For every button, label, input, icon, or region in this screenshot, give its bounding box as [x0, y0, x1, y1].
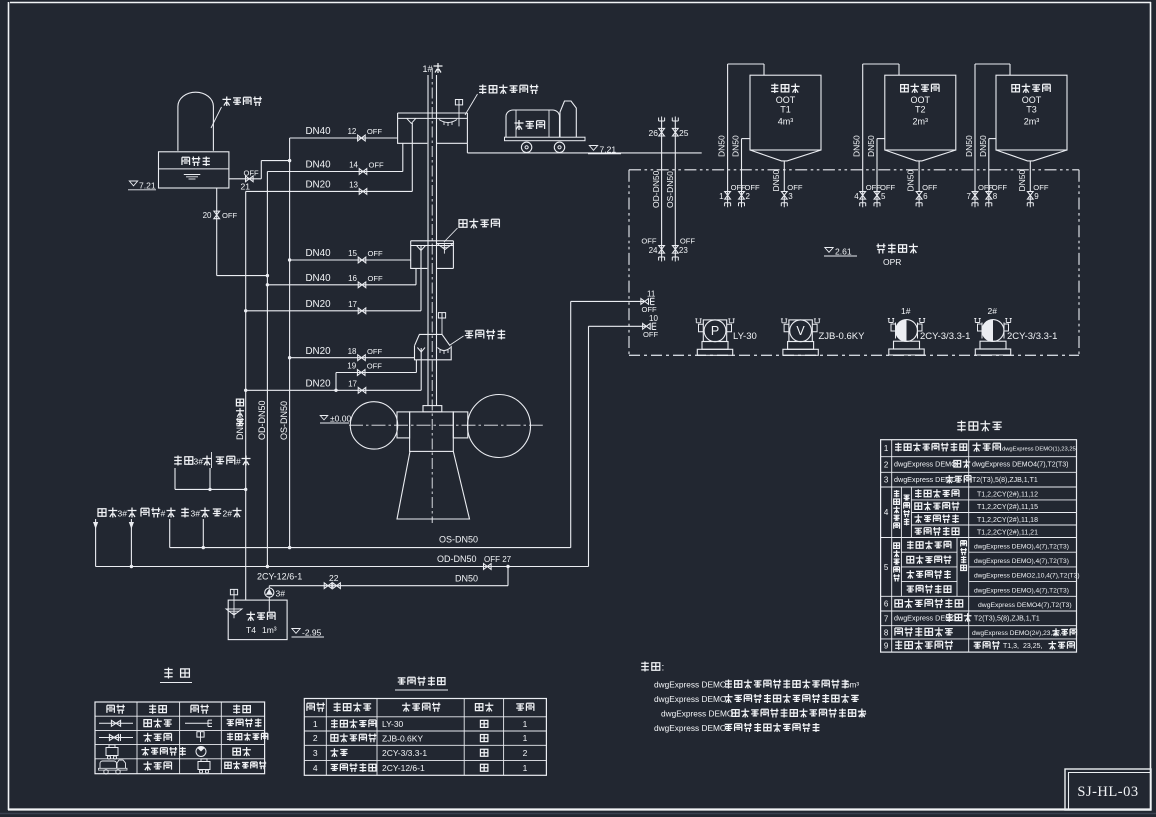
- svg-text:2.61: 2.61: [835, 247, 852, 257]
- svg-text:dwgExpress DEMO),4(7),T2(T3): dwgExpress DEMO),4(7),T2(T3): [974, 543, 1069, 550]
- svg-text:11: 11: [647, 289, 656, 298]
- svg-text:OS-DN50: OS-DN50: [439, 535, 478, 545]
- svg-text:dwgExpress DEMO4(7),T2(T3): dwgExpress DEMO4(7),T2(T3): [978, 602, 1072, 609]
- svg-text:dwgExpress DEMO(2#),23,25,: dwgExpress DEMO(2#),23,25,: [972, 630, 1062, 637]
- svg-text:2: 2: [746, 192, 751, 201]
- svg-text:3#: 3#: [276, 589, 286, 599]
- svg-text:DN20: DN20: [305, 346, 331, 357]
- svg-text:T4: T4: [246, 625, 256, 635]
- svg-text:OFF: OFF: [367, 362, 383, 371]
- svg-text:7.21: 7.21: [600, 145, 617, 155]
- svg-text:6: 6: [884, 600, 889, 609]
- svg-text:OOT: OOT: [776, 95, 796, 105]
- svg-text:3#: 3#: [191, 509, 201, 519]
- svg-text:dwgExpress DEMO: dwgExpress DEMO: [654, 694, 727, 704]
- svg-text:OS-DN50: OS-DN50: [665, 171, 675, 208]
- svg-text:23,25,: 23,25,: [1023, 643, 1043, 650]
- svg-text:±0.00: ±0.00: [330, 414, 351, 424]
- svg-text:dwgExpress DEMO: dwgExpress DEMO: [661, 709, 734, 719]
- svg-text:26: 26: [649, 128, 659, 138]
- svg-text:OFF: OFF: [222, 211, 238, 220]
- svg-text:.5m³: .5m³: [843, 681, 859, 690]
- svg-text:OFF: OFF: [369, 161, 385, 170]
- svg-text:T1,2,2CY(2#),11,12: T1,2,2CY(2#),11,12: [977, 492, 1038, 499]
- svg-text:DN50: DN50: [717, 135, 727, 157]
- svg-text:OFF: OFF: [643, 330, 659, 339]
- svg-text:LY-30: LY-30: [733, 331, 757, 342]
- svg-text:OFF: OFF: [367, 127, 383, 136]
- svg-text:1: 1: [719, 192, 724, 201]
- svg-text:8: 8: [993, 192, 998, 201]
- svg-text:20: 20: [203, 211, 212, 220]
- svg-text:OFF: OFF: [368, 249, 384, 258]
- svg-text:4: 4: [313, 763, 318, 773]
- svg-text:DN50: DN50: [978, 135, 988, 157]
- svg-text:OFF: OFF: [680, 237, 696, 246]
- svg-text:DN40: DN40: [305, 160, 331, 171]
- svg-text:T1,2,2CY(2#),11,18: T1,2,2CY(2#),11,18: [977, 517, 1038, 524]
- svg-text::: :: [662, 663, 665, 674]
- svg-text:7: 7: [967, 192, 972, 201]
- svg-text:3#: 3#: [194, 457, 204, 467]
- svg-text:2m³: 2m³: [913, 117, 929, 127]
- svg-text:DN50: DN50: [455, 574, 478, 584]
- svg-text:2CY-3/3.3-1: 2CY-3/3.3-1: [382, 748, 427, 758]
- svg-text:3#: 3#: [118, 509, 128, 519]
- svg-text:OFF: OFF: [1033, 183, 1049, 192]
- svg-text:#: #: [161, 509, 166, 519]
- svg-text:DN20: DN20: [305, 379, 331, 390]
- svg-text:OFF: OFF: [244, 168, 260, 177]
- svg-text:DN50: DN50: [731, 135, 741, 157]
- svg-text:dwgExpress DEMO),4(7),T2(T3): dwgExpress DEMO),4(7),T2(T3): [974, 558, 1069, 565]
- svg-text:1: 1: [884, 444, 889, 453]
- svg-text:DN40: DN40: [305, 273, 331, 284]
- svg-text:OFF: OFF: [368, 274, 384, 283]
- svg-text:T2: T2: [915, 105, 926, 115]
- svg-text:T1,2,2CY(2#),11,21: T1,2,2CY(2#),11,21: [977, 529, 1038, 536]
- svg-text:5: 5: [884, 563, 889, 572]
- svg-text:OD-DN50: OD-DN50: [437, 554, 477, 564]
- svg-text:14: 14: [349, 161, 358, 170]
- svg-text:ZJB-0.6KY: ZJB-0.6KY: [382, 733, 423, 743]
- svg-text:12: 12: [347, 127, 356, 136]
- svg-text:2CY-3/3.3-1: 2CY-3/3.3-1: [1007, 331, 1057, 342]
- svg-text:dwgExpress DEMO: dwgExpress DEMO: [654, 680, 727, 690]
- svg-text:OFF: OFF: [641, 237, 657, 246]
- svg-text:2CY-12/6-1: 2CY-12/6-1: [382, 763, 425, 773]
- svg-text:7: 7: [884, 614, 889, 623]
- svg-text:1#: 1#: [423, 64, 433, 74]
- svg-text:1: 1: [523, 719, 528, 729]
- svg-text:T2(T3),5(8),ZJB,1,T1: T2(T3),5(8),ZJB,1,T1: [972, 477, 1038, 484]
- svg-text:19: 19: [347, 362, 356, 371]
- svg-text:dwgExpress DEMO: dwgExpress DEMO: [894, 460, 957, 469]
- svg-text:DN50: DN50: [866, 135, 876, 157]
- svg-text:DN50: DN50: [906, 169, 916, 191]
- svg-text:V: V: [796, 324, 805, 338]
- svg-text:3: 3: [313, 748, 318, 758]
- svg-text:22: 22: [329, 573, 339, 583]
- svg-text:7.21: 7.21: [139, 180, 156, 190]
- svg-text:2#: 2#: [988, 306, 998, 316]
- svg-text:4: 4: [884, 508, 889, 517]
- svg-text:OOT: OOT: [911, 95, 931, 105]
- svg-text:2#: 2#: [858, 710, 867, 719]
- svg-text:15: 15: [348, 249, 357, 258]
- svg-text:dwgExpress DEMO(1),23,25: dwgExpress DEMO(1),23,25: [1002, 447, 1076, 453]
- svg-text:1#: 1#: [901, 306, 911, 316]
- svg-text:OPR: OPR: [883, 257, 901, 267]
- svg-text:ZJB-0.6KY: ZJB-0.6KY: [819, 331, 866, 342]
- svg-text:2: 2: [523, 748, 528, 758]
- svg-text:OFF: OFF: [922, 183, 938, 192]
- svg-text:LY-30: LY-30: [382, 719, 404, 729]
- svg-text:3: 3: [884, 476, 889, 485]
- svg-text:16: 16: [348, 274, 357, 283]
- svg-text:SJ-HL-03: SJ-HL-03: [1077, 784, 1138, 800]
- svg-text:2CY-12/6-1: 2CY-12/6-1: [257, 572, 302, 582]
- svg-text:1: 1: [313, 719, 318, 729]
- svg-text:2m³: 2m³: [1024, 117, 1040, 127]
- svg-text:2#: 2#: [223, 509, 233, 519]
- svg-text:OFF: OFF: [866, 183, 882, 192]
- svg-text:1m³: 1m³: [262, 625, 277, 635]
- svg-text:4: 4: [854, 192, 859, 201]
- svg-text:17: 17: [348, 300, 357, 309]
- svg-text:3: 3: [788, 192, 793, 201]
- svg-text:DN50: DN50: [1017, 169, 1027, 191]
- svg-text:T1,2,2CY(2#),11,15: T1,2,2CY(2#),11,15: [977, 504, 1038, 511]
- svg-text:OFF 27: OFF 27: [484, 555, 512, 564]
- svg-text:13: 13: [349, 181, 358, 190]
- svg-text:OFF: OFF: [367, 347, 383, 356]
- svg-text:25: 25: [679, 128, 689, 138]
- svg-text:OFF: OFF: [642, 305, 658, 314]
- svg-text:8: 8: [884, 628, 889, 637]
- svg-text:6: 6: [923, 192, 928, 201]
- svg-text:T2(T3),5(8),ZJB,1,T1: T2(T3),5(8),ZJB,1,T1: [974, 616, 1040, 623]
- svg-text:OFF: OFF: [992, 183, 1008, 192]
- svg-text:1: 1: [523, 733, 528, 743]
- svg-text:DN40: DN40: [305, 126, 331, 137]
- svg-text:23: 23: [679, 246, 688, 255]
- svg-text:T3: T3: [1026, 105, 1037, 115]
- svg-text:OFF: OFF: [787, 183, 803, 192]
- svg-text:DN50: DN50: [852, 135, 862, 157]
- svg-text:T1,3,: T1,3,: [1003, 643, 1019, 650]
- svg-text:9: 9: [884, 642, 889, 651]
- svg-text:dwgExpress DEMO: dwgExpress DEMO: [654, 723, 727, 733]
- svg-text:OD-DN50: OD-DN50: [257, 400, 267, 440]
- svg-text:4m³: 4m³: [778, 117, 794, 127]
- svg-text:#: #: [236, 457, 241, 467]
- svg-text:18: 18: [348, 347, 357, 356]
- svg-text:DN20: DN20: [305, 299, 331, 310]
- svg-text:OOT: OOT: [1022, 95, 1042, 105]
- svg-text:2: 2: [884, 461, 889, 470]
- svg-text:OD-DN50: OD-DN50: [651, 170, 661, 208]
- svg-text:DN40: DN40: [305, 248, 331, 259]
- svg-text:P: P: [711, 324, 719, 338]
- svg-text:OFF: OFF: [880, 183, 896, 192]
- svg-text:10: 10: [649, 314, 658, 323]
- svg-text:OFF: OFF: [745, 183, 761, 192]
- svg-text:dwgExpress DEMO),4(7),T2(T3): dwgExpress DEMO),4(7),T2(T3): [974, 587, 1069, 594]
- svg-text:1: 1: [523, 763, 528, 773]
- svg-text:dwgExpress DEMO2,10,4(7),T2(T3: dwgExpress DEMO2,10,4(7),T2(T3): [974, 573, 1080, 580]
- svg-text:24: 24: [649, 246, 658, 255]
- svg-text:2CY-3/3.3-1: 2CY-3/3.3-1: [920, 331, 970, 342]
- svg-text:-2.95: -2.95: [302, 628, 322, 638]
- svg-text:DN50: DN50: [964, 135, 974, 157]
- svg-text:DN20: DN20: [305, 180, 331, 191]
- svg-text:21: 21: [241, 182, 251, 192]
- svg-text:dwgExpress DEMO4(7),T2(T3): dwgExpress DEMO4(7),T2(T3): [972, 462, 1068, 469]
- svg-text:5: 5: [881, 192, 886, 201]
- svg-text:2: 2: [313, 733, 318, 743]
- svg-text:OS-DN50: OS-DN50: [279, 401, 289, 440]
- svg-text:17: 17: [348, 380, 357, 389]
- svg-text:DN50: DN50: [771, 169, 781, 191]
- svg-text:T1: T1: [780, 105, 791, 115]
- svg-text:9: 9: [1034, 192, 1039, 201]
